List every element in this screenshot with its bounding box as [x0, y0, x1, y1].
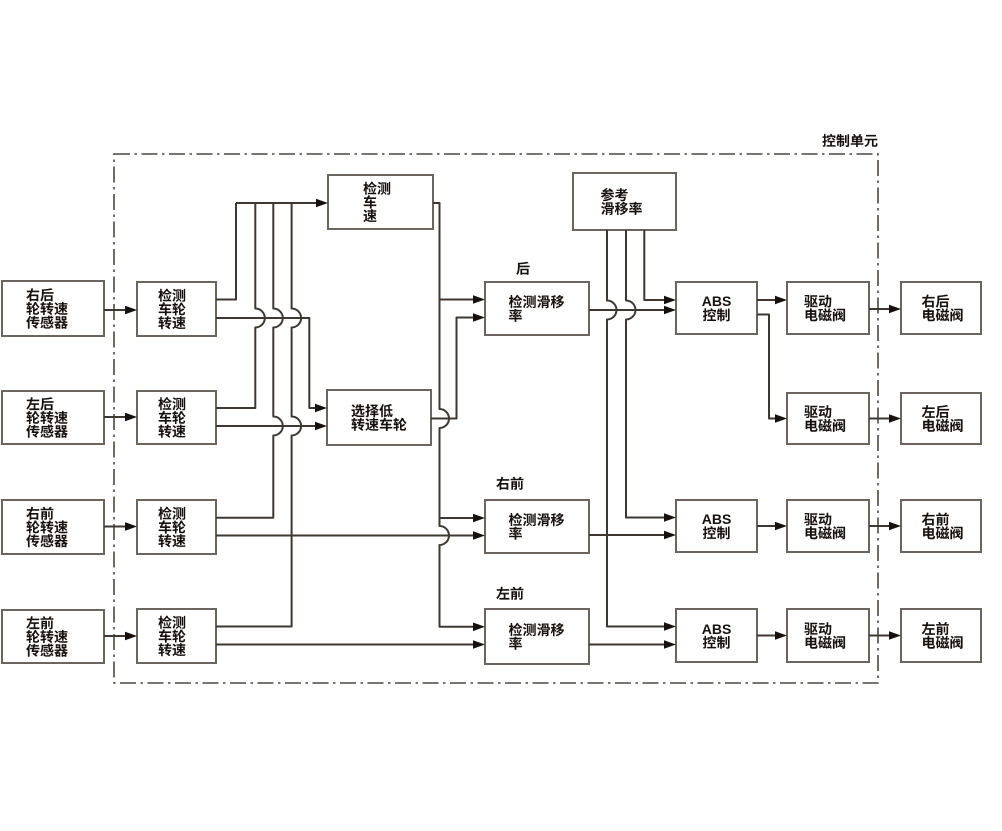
block ABS control rear [676, 282, 757, 334]
label control unit 控制单元 [822, 134, 877, 147]
label left-front 左前 above LF slip-rate block [496, 587, 523, 600]
wire reference slip to ABS rear with arrow [644, 230, 664, 300]
wire LF wheel speed to slip-rate LF bottom input with arrow [216, 644, 473, 646]
block detect wheel speed RR 检测车轮转速 [137, 282, 216, 336]
wire reference slip to ABS LF, hop over rear output, with arrow [607, 230, 664, 627]
label rear 后 above rear slip-rate block [516, 262, 529, 275]
sensor box left-rear wheel speed 左后轮转速传感器 [2, 391, 104, 444]
block ABS control right-front [676, 500, 757, 552]
block drive solenoid RF 驱动电磁阀 [787, 500, 869, 552]
wire reference slip to ABS RF, hop over rear output, with arrow [626, 230, 664, 518]
valve box left-rear 左后电磁阀 [901, 393, 981, 444]
wire drive solenoid LR to valve LR with arrow [869, 418, 889, 420]
block ABS control left-front [676, 609, 757, 662]
block drive solenoid LF 驱动电磁阀 [787, 609, 869, 662]
wire LR wheel speed to select-low bottom input with arrow [216, 425, 315, 427]
block detect slip rate left-front 检测滑移率 [485, 609, 589, 664]
sensor box right-rear wheel speed 右后轮转速传感器 [2, 281, 104, 336]
wire drive solenoid LF to valve LF with arrow [869, 635, 889, 637]
wire sensor LR to detect-wheel-speed LR with arrow [104, 416, 125, 418]
block detect vehicle speed 检测车速 [328, 175, 433, 229]
wire drive solenoid RR to valve RR with arrow [869, 308, 889, 310]
block detect slip rate rear 检测滑移率 [485, 282, 589, 335]
wire sensor RR to detect-wheel-speed RR with arrow [104, 309, 125, 311]
svg-text:ABS: ABS [702, 511, 732, 527]
block detect wheel speed LF 检测车轮转速 [137, 609, 216, 663]
control unit boundary dash-dot frame 控制单元 [114, 154, 878, 683]
wire select-low output up to slip-rate rear bottom input with arrow [431, 318, 473, 419]
block select low-speed wheel 选择低转速车轮 [327, 390, 431, 445]
wire slip-rate rear output to ABS rear with arrow [589, 309, 664, 311]
block detect wheel speed LR 检测车轮转速 [137, 391, 216, 444]
block drive solenoid RR 驱动电磁阀 [787, 282, 869, 334]
block drive solenoid LR 驱动电磁阀 [787, 393, 869, 444]
wire branch vehicle speed to slip-rate rear top input with arrow [440, 299, 474, 301]
wire ABS rear second output down to drive solenoid LR with arrow [757, 315, 775, 419]
svg-text:ABS: ABS [702, 621, 732, 637]
wire RR wheel speed up to vehicle-speed bus [216, 203, 236, 300]
wire drive solenoid RF to valve RF with arrow [869, 525, 889, 527]
wire ABS LF to drive solenoid LF with arrow [757, 635, 775, 637]
block reference slip rate 参考滑移率 [573, 173, 676, 230]
wire bus into detect-vehicle-speed with arrow [236, 202, 316, 204]
wire RR wheel speed down to select-low top input with arrow [216, 318, 315, 408]
wire sensor RF to detect-wheel-speed RF with arrow [104, 526, 125, 528]
valve box right-rear 右后电磁阀 [901, 282, 981, 334]
wire RF wheel speed to slip-rate RF bottom input with arrow [216, 535, 473, 537]
wire slip-rate RF output to ABS RF with arrow [589, 534, 664, 536]
block detect slip rate right-front 检测滑移率 [485, 500, 589, 553]
svg-text:ABS: ABS [702, 293, 732, 309]
wire ABS RF to drive solenoid RF with arrow [757, 525, 775, 527]
wire sensor LF to detect-wheel-speed LF with arrow [104, 635, 125, 637]
wire branch vehicle speed to slip-rate RF top input with arrow [440, 517, 474, 519]
wire LR wheel speed up to vehicle-speed bus, hop over RR line [216, 203, 265, 408]
wire LF wheel speed up to vehicle-speed bus, hops over RR and LR lines [216, 203, 301, 627]
valve box left-front 左前电磁阀 [901, 609, 981, 662]
wire ABS rear to drive solenoid RR with arrow [757, 299, 775, 301]
label right-front 右前 above RF slip-rate block [496, 477, 523, 490]
sensor box left-front wheel speed 左前轮转速传感器 [2, 610, 104, 663]
block detect wheel speed RF 检测车轮转速 [137, 500, 216, 554]
wire RF wheel speed up to vehicle-speed bus, hops over RR and LR lines [216, 203, 283, 518]
valve box right-front 右前电磁阀 [901, 500, 981, 552]
sensor box right-front wheel speed 右前轮转速传感器 [2, 500, 104, 554]
wire vehicle-speed trunk down middle with hops, into slip-rate LF top input [433, 203, 473, 627]
wire slip-rate LF output to ABS LF with arrow [589, 644, 664, 646]
